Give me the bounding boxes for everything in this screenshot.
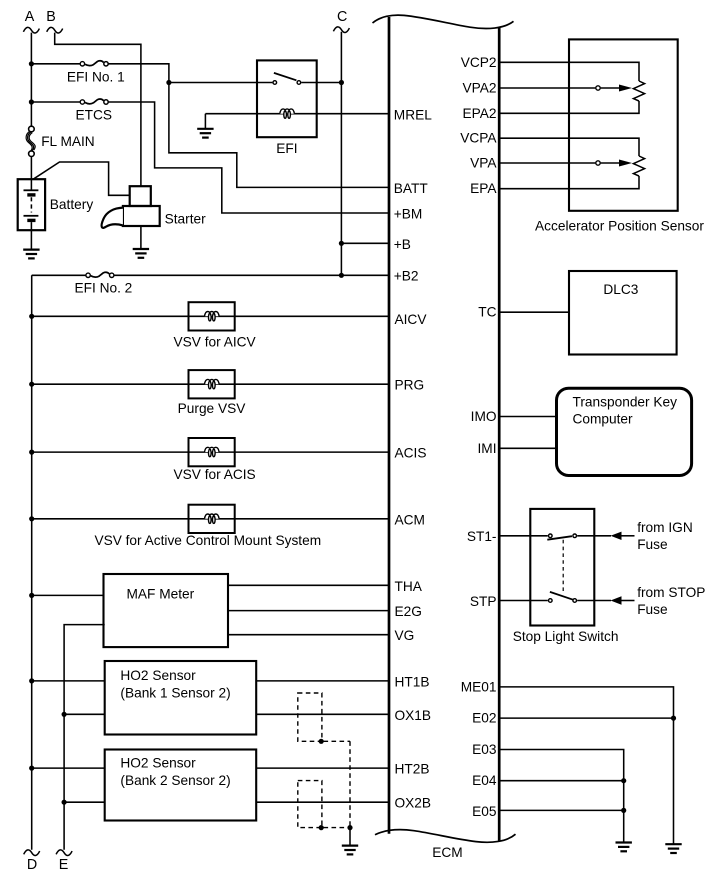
svg-text:VG: VG [395,628,415,643]
ECM torn top edge [373,15,514,28]
wire EFI No.2 row to +B2 [32,274,86,276]
wire to relay switch [169,82,273,84]
svg-text:E: E [59,857,69,873]
ground (E03-E05) [616,843,632,852]
node E [56,850,72,856]
svg-text:HO2 Sensor: HO2 Sensor [120,668,196,683]
wire VCPA [501,138,640,156]
ECM right edge [498,28,501,842]
svg-text:Fuse: Fuse [637,602,667,617]
svg-text:Transponder Key: Transponder Key [573,395,678,410]
shield OX1B [298,693,322,741]
ECM torn bottom edge [375,830,516,843]
junction dot D/ACM [29,516,34,521]
wire EFI No.1 row right [108,64,169,83]
svg-text:A: A [25,9,35,25]
wire OX2B [256,801,389,803]
arrow from IGN [611,532,622,540]
junction dot E02 [671,716,676,721]
svg-text:EPA2: EPA2 [463,106,497,121]
svg-text:ACM: ACM [395,512,425,527]
Stop Light Switch box [530,509,594,626]
wire BATT feed [169,83,389,188]
svg-text:+BM: +BM [394,206,423,221]
svg-text:TC: TC [478,305,496,320]
ground (ME01/E02) [665,844,681,853]
wire B to starter [55,33,141,187]
fuse ETCS [80,100,84,104]
wire +B [341,242,388,244]
svg-text:E2G: E2G [395,604,422,619]
break symbol A [23,27,39,33]
wire relay switch to node C [301,82,341,84]
svg-text:+B2: +B2 [394,269,419,284]
wire E bus vertical [64,625,105,850]
wire EFI No.1 row left [31,63,80,65]
svg-text:HO2 Sensor: HO2 Sensor [120,756,196,771]
wire HT2B [256,767,389,769]
ECM left edge [388,17,391,834]
svg-text:(Bank 2 Sensor 2): (Bank 2 Sensor 2) [120,773,230,788]
wire IMI [501,447,557,449]
svg-text:VSV for Active Control Mount S: VSV for Active Control Mount System [94,533,321,548]
HO2 Sensor Bank2 box [105,750,257,821]
wire PRG row [32,383,389,385]
svg-text:HT2B: HT2B [395,762,430,777]
resistor APS upper [633,81,644,101]
junction dot D/PRG [29,382,34,387]
wire A bus down to battery [30,33,32,126]
svg-text:ST1-: ST1- [467,529,497,544]
wire VPA wiper [501,162,596,164]
switch ST1- [549,534,553,538]
svg-text:Battery: Battery [50,197,94,212]
junction dot D/HT1B [29,678,34,683]
wire ME01 [501,687,674,844]
junction dot E/OX1B [62,712,67,717]
wire E03 [501,750,624,843]
junction dot D/HT2B [29,766,34,771]
relay EFI [257,60,317,137]
svg-text:from STOP: from STOP [637,585,705,600]
wire ETCS row left [31,101,80,103]
wire VG [228,634,389,636]
wire TC [501,311,570,313]
wire relay coil row (MREL) [205,113,388,115]
coil VSV ACIS [205,447,220,456]
svg-text:+B: +B [394,237,411,252]
wire D to HO2 bank1 [32,680,105,682]
wire VCP2 [501,62,640,81]
shield OX2B [298,781,322,828]
wire E2G [228,610,389,612]
ground (starter) [133,249,149,258]
junction dot D/AICV [29,314,34,319]
svg-text:THA: THA [395,579,423,594]
junction dot D/MAF [29,593,34,598]
arrow from STOP [611,596,622,604]
battery Battery [18,179,45,230]
HO2 Sensor Bank1 box [105,661,257,735]
svg-text:FL MAIN: FL MAIN [41,134,94,149]
DLC3 box [569,271,677,355]
svg-text:ECM: ECM [432,845,462,860]
coil VSV AICV [205,312,220,321]
svg-text:Starter: Starter [165,212,207,227]
wire AICV row [32,315,389,317]
wire STP [501,600,548,602]
wire IMO [501,416,557,418]
wire STP to arrow [577,600,611,602]
dashed switch link [562,540,564,594]
svg-text:EFI No. 2: EFI No. 2 [74,281,132,296]
svg-text:E03: E03 [472,742,497,757]
ground (EFI relay) [197,129,213,138]
svg-text:EFI: EFI [276,141,297,156]
wire battery feed to starter [33,162,130,195]
junction dot EFI1/relay/BATT [166,80,171,85]
wire battery to ground [30,230,32,249]
junction dot A/EFI No.1 [29,61,34,66]
junction dot E05 [621,808,626,813]
wire coil to ground [204,114,206,129]
break symbol B [47,27,63,33]
svg-text:AICV: AICV [395,312,428,327]
svg-text:VPA: VPA [470,156,497,171]
junction dot D/ACIS [29,450,34,455]
ground (battery) [23,250,39,259]
coil Purge VSV [205,379,220,388]
svg-text:Computer: Computer [573,411,634,426]
svg-text:VCPA: VCPA [460,131,497,146]
coil VSV ACM [205,514,220,523]
svg-text:VSV for AICV: VSV for AICV [174,334,257,349]
svg-text:MREL: MREL [394,107,432,122]
junction dot C/relay [339,80,344,85]
Purge VSV box [189,370,235,398]
junction dot E/OX2B [62,800,67,805]
svg-text:VCP2: VCP2 [461,55,497,70]
ground (shield) [342,846,358,855]
wire ST1- to arrow [577,535,611,537]
wire E to HO2 bank1 [64,713,105,715]
wire D to HO2 bank2 [32,767,105,769]
starter Starter [130,186,151,206]
svg-text:Fuse: Fuse [637,537,667,552]
wire ETCS to +BM [108,102,389,213]
coil EFI relay [280,109,295,118]
fuse EFI No. 1 [80,62,84,66]
svg-text:E05: E05 [472,804,497,819]
wire ST1- [501,535,548,537]
switch STP [549,599,553,603]
fuse EFI No. 2 [86,273,90,277]
svg-text:ACIS: ACIS [395,446,427,461]
wire THA [228,584,389,586]
wire starter to ground [140,226,142,249]
wire E to HO2 bank2 [64,801,105,803]
wire HT1B [256,680,389,682]
svg-text:(Bank 1 Sensor 2): (Bank 1 Sensor 2) [120,685,230,700]
node D [24,850,40,856]
svg-text:Stop Light Switch: Stop Light Switch [513,629,619,644]
svg-text:MAF Meter: MAF Meter [127,587,195,602]
wire D bus vertical [31,275,33,849]
VSV for ACIS box [189,438,235,466]
svg-text:DLC3: DLC3 [603,282,638,297]
svg-text:HT1B: HT1B [395,674,430,689]
svg-text:from IGN: from IGN [637,520,693,535]
wire D to MAF [32,594,104,596]
svg-text:STP: STP [470,594,497,609]
wire shield to ground [349,828,351,846]
svg-text:PRG: PRG [395,378,425,393]
wire ACIS row [32,451,389,453]
wire E04 [501,780,624,782]
svg-text:VSV for ACIS: VSV for ACIS [174,467,256,482]
wire C bus [340,32,342,275]
junction dot shield ground [347,825,352,830]
svg-text:BATT: BATT [394,181,429,196]
svg-text:EPA: EPA [470,181,497,196]
VSV for AICV box [189,302,235,330]
svg-text:E04: E04 [472,773,497,788]
svg-text:IMO: IMO [471,409,497,424]
svg-text:E02: E02 [472,711,496,726]
junction dot A/ETCS [29,99,34,104]
MAF Meter box [104,574,229,647]
svg-text:C: C [337,9,347,25]
svg-text:Purge VSV: Purge VSV [178,401,247,416]
fusible link FL MAIN [29,126,35,132]
wire EPA [501,176,640,189]
wire OX1B [256,713,389,715]
svg-text:OX1B: OX1B [395,708,432,723]
Accelerator Position Sensor box [569,39,678,210]
wire ACM row [32,518,389,520]
wire E02 [501,717,674,719]
svg-text:EFI No. 1: EFI No. 1 [67,70,125,85]
VSV for ACM box [189,505,235,533]
break symbol C [333,27,349,33]
junction dot C/+B [339,241,344,246]
svg-text:IMI: IMI [477,441,496,456]
svg-text:B: B [46,9,56,25]
svg-text:Accelerator Position Sensor: Accelerator Position Sensor [535,218,704,233]
svg-text:D: D [27,857,37,873]
junction dot E04 [621,778,626,783]
wire EPA2 [501,101,640,113]
svg-text:VPA2: VPA2 [463,81,497,96]
wire E05 [501,809,624,811]
svg-text:ME01: ME01 [461,679,497,694]
svg-text:ETCS: ETCS [76,107,113,122]
junction dot C/+B2 [339,273,344,278]
resistor APS lower [633,156,644,176]
wire VPA2 wiper [501,87,596,89]
Transponder Key Computer box [557,388,692,475]
svg-text:OX2B: OX2B [395,796,432,811]
